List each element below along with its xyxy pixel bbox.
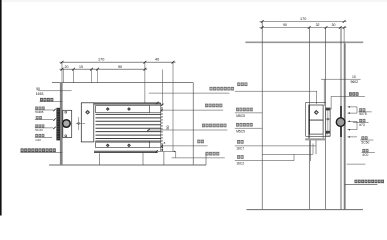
label 1.5 alum sheet xyxy=(210,87,234,91)
svg-text:5C#05: 5C#05 xyxy=(35,110,44,114)
vertical profile rect xyxy=(81,103,94,142)
profile bolt marker xyxy=(86,110,90,114)
panel top rail (thick gray) xyxy=(94,103,161,105)
vertical: stud line 1 xyxy=(309,28,311,210)
bottom leader: 4mm alum plate with beam xyxy=(355,180,384,183)
dimension line 170/40 (left view top) xyxy=(60,61,176,63)
under-bracket verticals xyxy=(309,140,311,161)
panel right serrated edge xyxy=(160,103,162,152)
label stone-hanger (bold) xyxy=(40,98,53,101)
svg-text:40: 40 xyxy=(155,58,159,62)
narrow vertical plate xyxy=(326,108,330,136)
label 25X3 flat steel xyxy=(205,104,222,108)
svg-text:90: 90 xyxy=(118,65,122,69)
svg-text:170: 170 xyxy=(98,58,104,62)
svg-text:10: 10 xyxy=(352,75,356,79)
rv label R3 xyxy=(361,136,367,139)
svg-text:16C7: 16C7 xyxy=(236,146,244,150)
slab/beam line (gray) xyxy=(245,41,363,43)
svg-text:32: 32 xyxy=(316,23,320,27)
rv label R4 xyxy=(362,149,368,152)
dimension line 20/15/90 (left view) xyxy=(60,68,148,70)
label bolt M5X35 xyxy=(35,107,44,110)
vertical: left face line xyxy=(261,22,263,210)
svg-text:20: 20 xyxy=(65,65,69,69)
rv label R2 xyxy=(359,119,365,122)
panel corner tick top xyxy=(156,102,159,105)
svg-text:5C.63: 5C.63 xyxy=(35,128,43,132)
connector plate xyxy=(63,110,72,137)
label joint sealant xyxy=(206,152,220,156)
panel corner tick bottom xyxy=(155,150,158,153)
border frame left bar xyxy=(0,0,2,216)
box2-bar connector verticals xyxy=(308,134,310,138)
svg-text:4C0: 4C0 xyxy=(362,153,368,157)
extension lines xyxy=(61,62,63,82)
anchor channel toothed strip xyxy=(56,108,60,141)
panel top band with bolts xyxy=(96,105,150,112)
label ss bolt M5X25 xyxy=(236,108,253,112)
stair connector xyxy=(262,153,313,155)
svg-text:30: 30 xyxy=(332,23,336,27)
svg-text:15: 15 xyxy=(79,65,83,69)
wall dark segment near bracket xyxy=(340,106,342,137)
sealant leader xyxy=(331,95,348,97)
panel bottom band with bolts xyxy=(96,141,150,148)
svg-text:9602: 9602 xyxy=(351,80,359,84)
short leader near bottom right xyxy=(347,163,366,165)
label sealant (bold) xyxy=(349,92,358,95)
label core sleeve xyxy=(237,140,244,144)
label upper rail xyxy=(36,116,42,119)
plate small circle bottom xyxy=(65,135,67,137)
gray bar under bracket xyxy=(305,138,325,140)
bracket bottom line xyxy=(306,135,331,137)
svg-text:50: 50 xyxy=(166,126,170,130)
svg-text:170: 170 xyxy=(300,17,306,21)
svg-text:5C50: 5C50 xyxy=(361,140,369,144)
vertical: wall thick gray bar xyxy=(344,43,346,209)
plate end circle xyxy=(326,132,328,134)
svg-text:M5C5: M5C5 xyxy=(236,114,245,118)
bracket box 2 xyxy=(309,120,323,134)
label alum sheet (rv) xyxy=(237,82,247,86)
svg-text:#73: #73 xyxy=(359,123,365,127)
svg-text:50: 50 xyxy=(36,87,40,91)
label adhesive xyxy=(197,140,204,144)
svg-text:5075: 5075 xyxy=(359,112,367,116)
joint pointer drop xyxy=(175,151,177,158)
label rivet xyxy=(35,134,44,137)
baseline (left view bottom) xyxy=(49,164,206,166)
wall gray band (mullion web) xyxy=(60,83,63,165)
dim line 170 (right view top) xyxy=(260,21,347,23)
svg-text:M5C5: M5C5 xyxy=(236,129,245,133)
border frame top line xyxy=(2,0,387,2)
bolt circle on wall xyxy=(336,118,345,127)
plate small circle top xyxy=(65,111,67,113)
bold leader: 4mm alum plate to beam xyxy=(21,148,56,152)
vertical: stud line 2 xyxy=(325,28,327,210)
dim line 90/32/30 xyxy=(260,27,347,29)
joint pointer line xyxy=(158,150,175,152)
svg-text:1653: 1653 xyxy=(36,92,44,96)
bolt big circle xyxy=(63,120,71,128)
panel bottom rail (thick gray) xyxy=(94,151,158,153)
panel hatch lines (insulation) xyxy=(96,113,161,115)
svg-text:C43: C43 xyxy=(36,138,42,142)
centerline cross xyxy=(76,122,85,124)
svg-text:90: 90 xyxy=(283,23,287,27)
label ss bolt 2 xyxy=(236,123,253,127)
baseline (right view) xyxy=(247,209,364,211)
label rail xyxy=(35,124,44,127)
bracket top line xyxy=(306,101,326,103)
vertical: wall thin dark line xyxy=(340,28,342,210)
bracket box 1 with bolt xyxy=(309,105,323,120)
joint box verticals xyxy=(142,153,144,165)
wall arrows xyxy=(348,106,357,108)
rv label R1 xyxy=(359,108,365,111)
svg-text:16C2: 16C2 xyxy=(236,162,244,166)
label 10 stone+adhesive xyxy=(202,124,226,128)
wall top line (left view) xyxy=(52,82,193,84)
label corner code xyxy=(237,155,244,159)
big rectangle right edge xyxy=(192,83,194,165)
